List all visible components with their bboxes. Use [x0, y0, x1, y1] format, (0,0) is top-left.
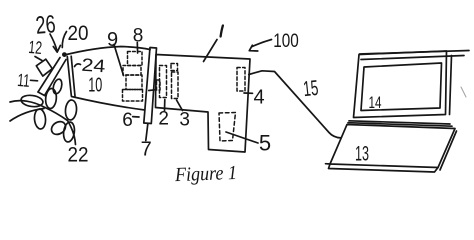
dashed component 2: [157, 66, 167, 98]
leader 3: [177, 100, 183, 111]
dashed battery 5: [219, 113, 236, 142]
base right thickness: [440, 131, 457, 170]
svg-text:13: 13: [355, 143, 369, 166]
plant petal A2: [20, 94, 43, 108]
svg-text:10: 10: [88, 75, 102, 97]
plant petal A4: [52, 78, 64, 95]
dashed memory 4: [237, 68, 245, 92]
plant petal A3: [34, 109, 47, 130]
svg-text:26: 26: [34, 10, 56, 40]
svg-text:12: 12: [28, 37, 43, 58]
leader 5: [226, 132, 258, 143]
plant stem middle: [45, 108, 68, 121]
label 1 stroke: [221, 26, 223, 37]
svg-text:100: 100: [273, 30, 299, 52]
svg-text:6: 6: [122, 110, 133, 131]
laptop screen inner: [361, 63, 442, 111]
leader tilde 24: [75, 64, 81, 67]
plant petal B2: [49, 119, 68, 137]
svg-text:2: 2: [158, 109, 169, 130]
plant stem tail: [68, 121, 76, 145]
svg-text:24: 24: [81, 55, 106, 77]
main body 1 outline: [156, 55, 251, 153]
leader 1: [204, 40, 218, 62]
leader 20: [62, 32, 66, 48]
plant petal B3: [62, 121, 75, 142]
svg-text:Figure 1: Figure 1: [174, 162, 238, 186]
sensor square 12: [36, 59, 52, 76]
base front thickness: [329, 164, 439, 172]
pivot dot 20: [62, 52, 67, 57]
dashed component 3: [171, 64, 178, 99]
funnel bottom edge: [72, 97, 145, 111]
svg-text:9: 9: [107, 29, 118, 51]
leader 11: [31, 79, 38, 82]
plant petal B1: [65, 100, 78, 121]
svg-text:15: 15: [302, 76, 319, 101]
svg-text:14: 14: [369, 93, 382, 112]
plant petal A1: [45, 88, 57, 109]
smudge right of laptop: [461, 87, 466, 97]
svg-text:4: 4: [253, 87, 264, 109]
svg-text:7: 7: [141, 139, 152, 161]
dashed component 8/9: [123, 52, 143, 102]
svg-text:22: 22: [68, 144, 89, 167]
svg-text:8: 8: [133, 26, 144, 47]
svg-text:5: 5: [259, 131, 271, 156]
collar 6/7: [144, 48, 157, 124]
plant stem left lower: [10, 109, 44, 122]
lid top double lines: [360, 51, 470, 55]
laptop base 13: [330, 125, 455, 168]
plant stem left upper: [10, 101, 45, 108]
leader 9: [114, 45, 124, 76]
svg-text:11: 11: [17, 70, 31, 91]
collar tick: [149, 89, 155, 92]
leader 6: [133, 116, 139, 118]
laptop lid outer 14: [354, 51, 447, 118]
svg-text:3: 3: [179, 110, 190, 131]
cable 15: [249, 71, 341, 138]
leader arrow 100: [252, 40, 271, 47]
lid right double line: [450, 56, 452, 115]
funnel rim 24: [67, 56, 75, 96]
base bottom overshoot: [326, 163, 331, 165]
wand bar 11: [38, 58, 66, 96]
leader 2: [164, 100, 166, 111]
svg-text:20: 20: [68, 22, 89, 45]
funnel top edge: [65, 47, 151, 56]
leader 12: [35, 57, 42, 61]
leader 7: [146, 124, 148, 141]
hinge lines: [349, 121, 450, 124]
leader 4: [244, 92, 253, 94]
leader 26 arrow: [50, 34, 57, 51]
leader 8: [136, 43, 138, 54]
